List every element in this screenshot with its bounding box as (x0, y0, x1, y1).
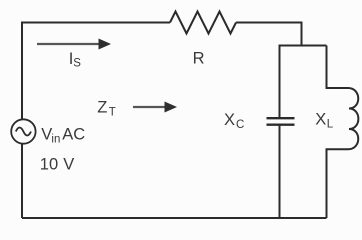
svg-text:X: X (315, 111, 326, 129)
svg-text:AC: AC (62, 126, 85, 144)
wire: inductor top lead (327, 46, 349, 89)
svg-text:C: C (236, 119, 244, 131)
inductor XL (348, 88, 358, 149)
resistor R (170, 12, 236, 34)
wire: parallel-section top bar (279, 45, 327, 47)
svg-text:R: R (193, 50, 205, 68)
current arrow IS (37, 39, 111, 50)
wire: capacitor bottom lead (279, 125, 281, 218)
capacitor XC (267, 118, 295, 125)
wire: inductor bottom lead (327, 149, 349, 218)
wire: bottom return (22, 217, 327, 219)
svg-text:X: X (224, 111, 235, 129)
svg-text:10: 10 (40, 156, 58, 174)
svg-text:S: S (73, 58, 81, 70)
wire: left side (source top lead, top-left corner, run to resistor) (22, 23, 170, 120)
wire: capacitor top lead (279, 46, 281, 119)
svg-text:in: in (51, 134, 60, 146)
wire: resistor right lead to parallel-section feed (236, 23, 302, 46)
svg-text:L: L (327, 119, 334, 131)
svg-text:T: T (109, 107, 116, 119)
impedance arrow ZT (133, 102, 177, 113)
svg-text:Z: Z (97, 99, 107, 117)
wire: source bottom lead (21, 144, 23, 218)
svg-text:V: V (63, 156, 74, 174)
AC source V_in (11, 119, 35, 143)
